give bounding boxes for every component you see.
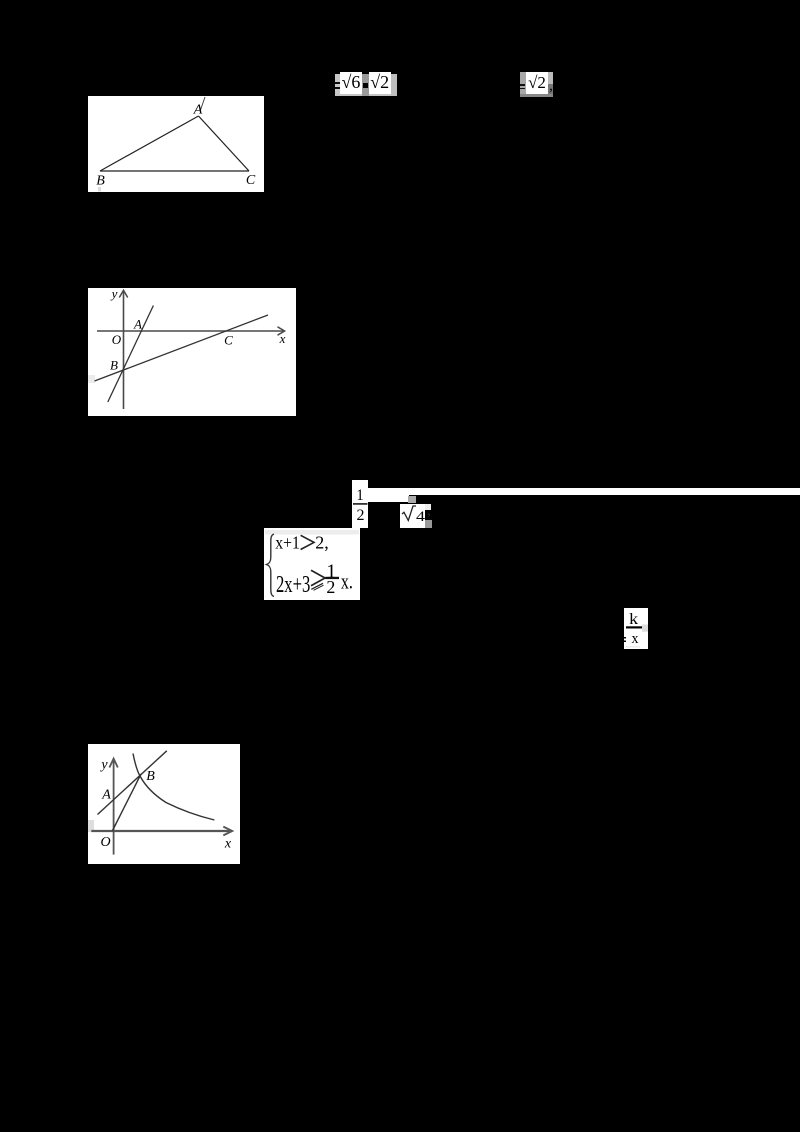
svg-text:x+1: x+1 [275, 532, 300, 552]
svg-text:C: C [246, 173, 256, 188]
svg-text:B: B [146, 769, 155, 784]
svg-text:y: y [110, 288, 118, 301]
svg-text:x: x [632, 631, 639, 647]
svg-text:B: B [96, 174, 105, 189]
svg-text:A: A [133, 317, 142, 332]
svg-text:A: A [101, 788, 111, 803]
svg-text:A: A [193, 103, 203, 118]
svg-text:x: x [224, 837, 232, 852]
svg-text:2: 2 [326, 577, 335, 597]
svg-text:k: k [629, 611, 638, 628]
svg-text:O: O [100, 835, 110, 850]
svg-text:1: 1 [356, 487, 364, 504]
svg-text:x.: x. [341, 568, 353, 593]
svg-text:y: y [99, 758, 108, 773]
svg-text:2,: 2, [315, 532, 329, 552]
svg-text:2x+3: 2x+3 [276, 571, 310, 597]
svg-text:2: 2 [357, 507, 365, 524]
svg-text:x: x [279, 331, 286, 346]
svg-text:C: C [224, 333, 233, 348]
svg-text:O: O [112, 332, 122, 347]
svg-text:B: B [110, 358, 118, 373]
